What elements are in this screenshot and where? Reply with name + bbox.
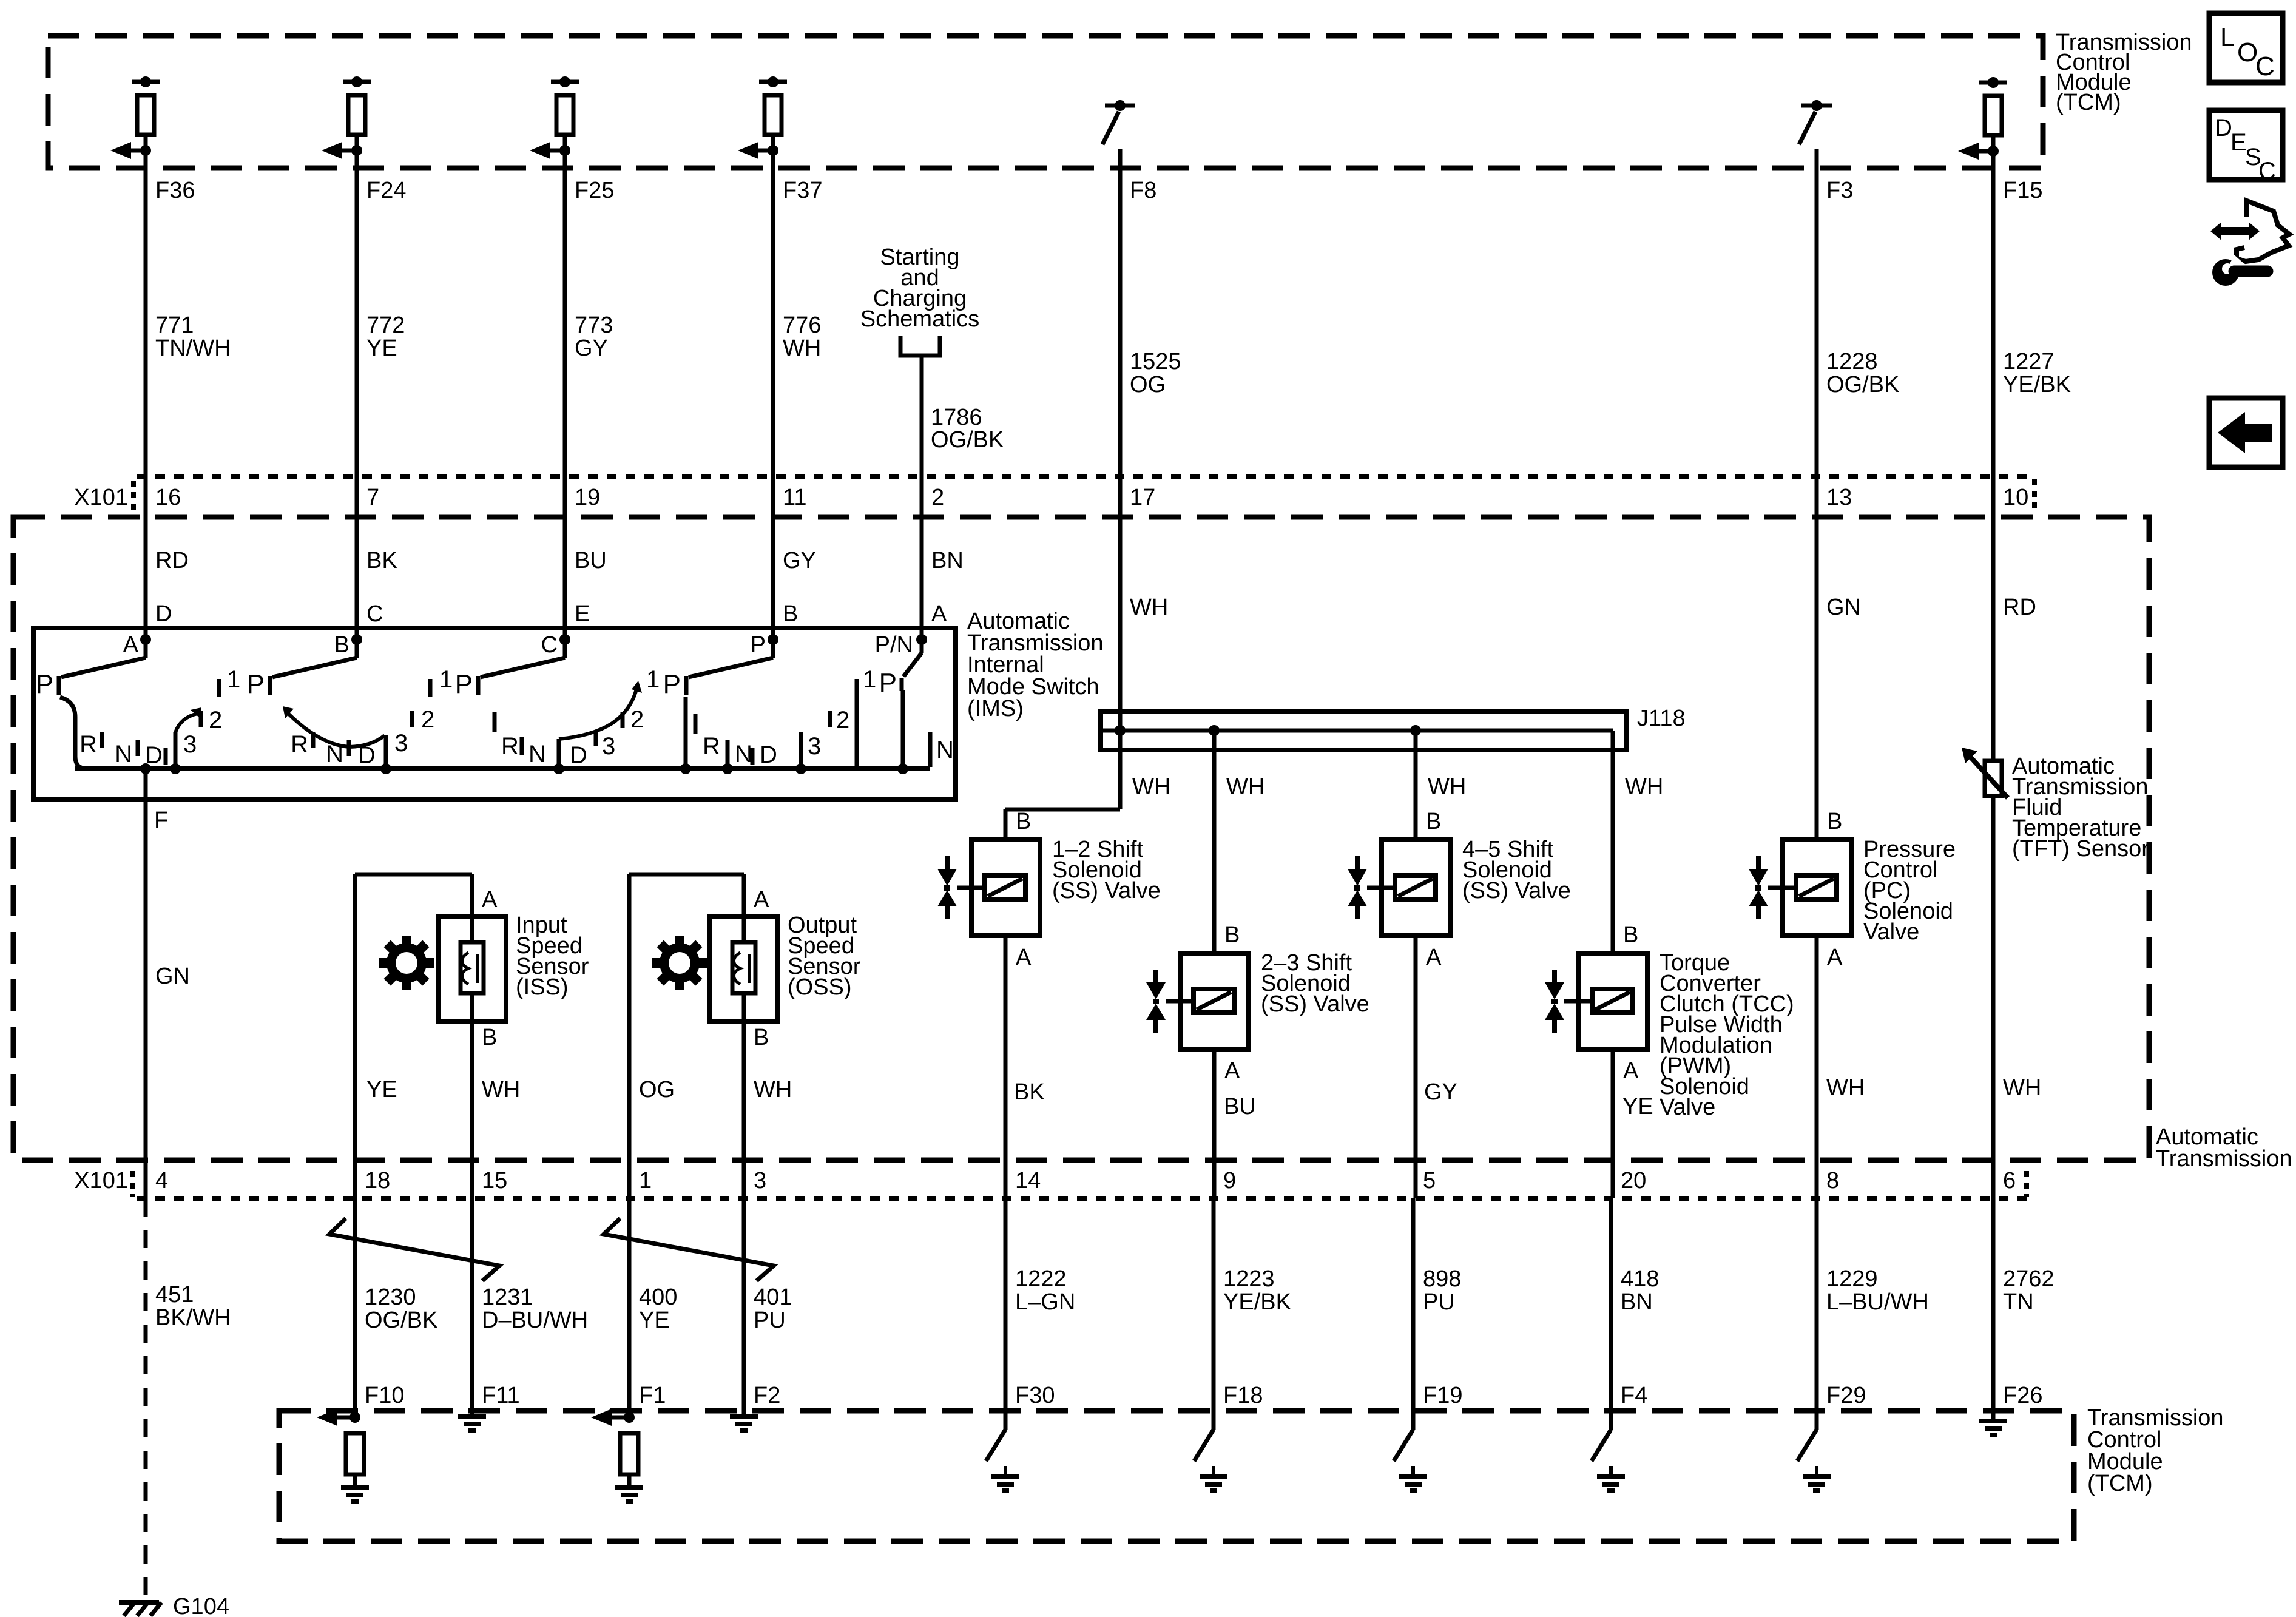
svg-text:418: 418 <box>1621 1266 1659 1292</box>
svg-text:D: D <box>760 741 777 768</box>
svg-text:19: 19 <box>575 485 600 510</box>
svg-text:WH: WH <box>1826 1075 1865 1101</box>
svg-text:17: 17 <box>1130 485 1155 510</box>
svg-text:898: 898 <box>1423 1266 1461 1292</box>
svg-text:Valve: Valve <box>1863 919 1919 945</box>
svg-text:(SS) Valve: (SS) Valve <box>1261 991 1369 1017</box>
svg-text:F15: F15 <box>2003 178 2042 203</box>
svg-text:YE/BK: YE/BK <box>1223 1289 1291 1315</box>
svg-text:D–BU/WH: D–BU/WH <box>482 1308 588 1333</box>
svg-text:F1: F1 <box>639 1383 666 1408</box>
svg-text:A: A <box>482 887 498 913</box>
svg-text:2: 2 <box>836 707 849 734</box>
svg-text:Transmission: Transmission <box>2156 1146 2292 1172</box>
svg-text:L: L <box>2220 22 2235 52</box>
svg-text:6: 6 <box>2003 1168 2016 1193</box>
svg-text:E: E <box>575 601 590 627</box>
svg-text:1230: 1230 <box>365 1284 416 1310</box>
svg-text:PU: PU <box>754 1308 786 1333</box>
svg-text:2762: 2762 <box>2003 1266 2055 1292</box>
svg-text:YE/BK: YE/BK <box>2003 372 2071 397</box>
svg-text:401: 401 <box>754 1284 792 1310</box>
svg-text:F2: F2 <box>754 1383 780 1408</box>
svg-text:F: F <box>154 808 168 833</box>
svg-text:YE: YE <box>366 336 397 361</box>
svg-text:WH: WH <box>754 1077 792 1102</box>
svg-text:TN: TN <box>2003 1289 2034 1315</box>
svg-text:N: N <box>936 737 954 763</box>
svg-text:B: B <box>783 601 798 627</box>
svg-text:P: P <box>247 669 265 699</box>
svg-text:BK: BK <box>366 548 397 573</box>
svg-text:3: 3 <box>808 733 821 760</box>
svg-text:P: P <box>751 632 766 658</box>
svg-text:R: R <box>703 733 720 760</box>
svg-text:C: C <box>2255 52 2275 81</box>
svg-text:F26: F26 <box>2003 1383 2042 1408</box>
svg-text:1231: 1231 <box>482 1284 533 1310</box>
svg-text:WH: WH <box>1226 774 1264 800</box>
svg-text:BN: BN <box>1621 1289 1653 1315</box>
svg-text:F8: F8 <box>1130 178 1156 203</box>
svg-text:P: P <box>879 668 897 698</box>
svg-text:Schematics: Schematics <box>860 306 979 332</box>
svg-text:1525: 1525 <box>1130 349 1181 374</box>
svg-text:BN: BN <box>931 548 964 573</box>
svg-text:P: P <box>663 669 681 699</box>
svg-text:400: 400 <box>639 1284 677 1310</box>
svg-text:N: N <box>528 741 546 768</box>
svg-text:X101: X101 <box>74 1168 128 1193</box>
svg-text:WH: WH <box>1130 595 1168 620</box>
svg-text:1: 1 <box>863 666 876 693</box>
svg-text:WH: WH <box>2003 1075 2041 1101</box>
svg-text:A: A <box>1016 945 1032 970</box>
svg-text:3: 3 <box>754 1168 766 1193</box>
svg-text:F11: F11 <box>482 1383 520 1408</box>
svg-text:3: 3 <box>602 733 615 760</box>
svg-text:2: 2 <box>630 706 644 733</box>
svg-text:(IMS): (IMS) <box>967 696 1024 721</box>
svg-text:N: N <box>735 741 752 768</box>
svg-text:B: B <box>1224 922 1240 948</box>
svg-text:BU: BU <box>575 548 607 573</box>
svg-text:WH: WH <box>1132 774 1170 800</box>
svg-text:GY: GY <box>783 548 816 573</box>
svg-text:771: 771 <box>155 312 194 338</box>
svg-text:YE: YE <box>366 1077 397 1102</box>
svg-text:F18: F18 <box>1223 1383 1263 1408</box>
svg-text:GY: GY <box>1424 1079 1457 1105</box>
svg-text:OG/BK: OG/BK <box>931 427 1004 453</box>
svg-text:F19: F19 <box>1423 1383 1462 1408</box>
svg-text:WH: WH <box>482 1077 520 1102</box>
svg-text:F30: F30 <box>1015 1383 1055 1408</box>
svg-text:B: B <box>1827 809 1842 834</box>
svg-text:WH: WH <box>783 336 821 361</box>
svg-text:2: 2 <box>209 707 222 734</box>
svg-text:N: N <box>326 741 343 768</box>
svg-text:772: 772 <box>366 312 405 338</box>
svg-text:D: D <box>2215 115 2232 141</box>
svg-text:F4: F4 <box>1621 1383 1647 1408</box>
svg-text:776: 776 <box>783 312 821 338</box>
svg-text:5: 5 <box>1423 1168 1436 1193</box>
svg-text:A: A <box>754 887 769 913</box>
svg-text:P: P <box>36 669 53 699</box>
svg-text:GN: GN <box>155 964 190 989</box>
svg-text:N: N <box>115 741 132 768</box>
svg-text:B: B <box>334 632 349 658</box>
svg-text:F3: F3 <box>1826 178 1853 203</box>
svg-text:P: P <box>455 669 473 699</box>
svg-text:15: 15 <box>482 1168 507 1193</box>
svg-text:YE: YE <box>1622 1094 1653 1119</box>
svg-text:(SS) Valve: (SS) Valve <box>1052 878 1161 903</box>
svg-text:F10: F10 <box>365 1383 404 1408</box>
svg-text:7: 7 <box>366 485 379 510</box>
svg-text:OG: OG <box>639 1077 675 1102</box>
svg-text:G104: G104 <box>173 1594 229 1617</box>
svg-text:1223: 1223 <box>1223 1266 1275 1292</box>
svg-text:OG/BK: OG/BK <box>1826 372 1899 397</box>
svg-text:20: 20 <box>1621 1168 1646 1193</box>
svg-text:(TFT) Sensor: (TFT) Sensor <box>2012 836 2149 862</box>
svg-text:9: 9 <box>1223 1168 1236 1193</box>
svg-text:TN/WH: TN/WH <box>155 336 231 361</box>
svg-text:1: 1 <box>646 666 660 693</box>
svg-text:A: A <box>931 601 947 627</box>
svg-text:B: B <box>1016 809 1031 834</box>
svg-text:RD: RD <box>155 548 189 573</box>
svg-text:E: E <box>2230 129 2247 156</box>
svg-text:18: 18 <box>365 1168 390 1193</box>
svg-text:L–BU/WH: L–BU/WH <box>1826 1289 1929 1315</box>
svg-text:3: 3 <box>183 731 197 758</box>
svg-text:BK: BK <box>1014 1079 1045 1105</box>
svg-text:C: C <box>2258 158 2276 184</box>
svg-text:3: 3 <box>394 730 408 757</box>
svg-text:4: 4 <box>155 1168 168 1193</box>
svg-text:1786: 1786 <box>931 405 982 430</box>
svg-text:(SS) Valve: (SS) Valve <box>1462 878 1571 903</box>
svg-text:A: A <box>1623 1058 1639 1084</box>
svg-text:P/N: P/N <box>875 632 913 658</box>
svg-text:A: A <box>1827 945 1843 970</box>
svg-text:B: B <box>1623 922 1638 948</box>
svg-text:D: D <box>570 742 587 769</box>
svg-text:R: R <box>501 733 519 760</box>
svg-text:R: R <box>79 731 97 758</box>
svg-text:1229: 1229 <box>1826 1266 1878 1292</box>
svg-text:14: 14 <box>1015 1168 1041 1193</box>
svg-text:BK/WH: BK/WH <box>155 1305 231 1331</box>
svg-text:OG: OG <box>1130 372 1166 397</box>
svg-text:773: 773 <box>575 312 613 338</box>
svg-text:F25: F25 <box>575 178 614 203</box>
svg-text:F37: F37 <box>783 178 822 203</box>
svg-text:D: D <box>155 601 172 627</box>
svg-text:YE: YE <box>639 1308 670 1333</box>
svg-text:2: 2 <box>421 706 434 733</box>
svg-text:2: 2 <box>931 485 944 510</box>
svg-text:1: 1 <box>227 666 240 693</box>
svg-text:F36: F36 <box>155 178 195 203</box>
svg-text:1228: 1228 <box>1826 349 1878 374</box>
svg-text:D: D <box>358 742 376 769</box>
svg-text:PU: PU <box>1423 1289 1455 1315</box>
svg-text:(ISS): (ISS) <box>516 974 569 1000</box>
svg-text:1: 1 <box>639 1168 652 1193</box>
svg-text:WH: WH <box>1428 774 1466 800</box>
svg-text:A: A <box>1224 1058 1240 1084</box>
svg-text:R: R <box>291 731 308 758</box>
svg-text:GY: GY <box>575 336 608 361</box>
svg-text:L–GN: L–GN <box>1015 1289 1075 1315</box>
svg-text:1: 1 <box>439 666 453 693</box>
svg-text:(TCM): (TCM) <box>2056 90 2121 115</box>
svg-text:J118: J118 <box>1637 706 1686 731</box>
svg-text:A: A <box>1426 945 1442 970</box>
svg-text:F29: F29 <box>1826 1383 1866 1408</box>
svg-text:(OSS): (OSS) <box>788 974 852 1000</box>
svg-text:F24: F24 <box>366 178 406 203</box>
svg-text:GN: GN <box>1826 595 1861 620</box>
svg-text:13: 13 <box>1826 485 1852 510</box>
svg-text:(TCM): (TCM) <box>2087 1471 2153 1496</box>
svg-text:451: 451 <box>155 1282 194 1308</box>
svg-text:10: 10 <box>2003 485 2028 510</box>
svg-text:11: 11 <box>783 485 806 510</box>
svg-text:C: C <box>366 601 383 627</box>
svg-text:OG/BK: OG/BK <box>365 1308 437 1333</box>
svg-text:B: B <box>754 1025 769 1050</box>
svg-text:BU: BU <box>1224 1094 1256 1119</box>
svg-text:C: C <box>541 632 558 658</box>
svg-text:A: A <box>123 632 139 658</box>
svg-text:Valve: Valve <box>1660 1095 1715 1120</box>
svg-text:1222: 1222 <box>1015 1266 1067 1292</box>
svg-text:B: B <box>482 1025 497 1050</box>
svg-text:16: 16 <box>155 485 181 510</box>
svg-text:8: 8 <box>1826 1168 1839 1193</box>
svg-text:WH: WH <box>1625 774 1663 800</box>
svg-text:B: B <box>1426 809 1441 834</box>
svg-text:1227: 1227 <box>2003 349 2055 374</box>
svg-text:RD: RD <box>2003 595 2036 620</box>
svg-text:X101: X101 <box>74 485 128 510</box>
